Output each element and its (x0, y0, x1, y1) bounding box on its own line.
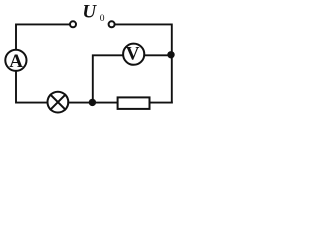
svg-text:A: A (9, 51, 23, 72)
junction node bottom (89, 99, 96, 106)
wire lamp to resistor (68, 102, 117, 104)
wire left-bottom: from ammeter bottom down and right to lamp (16, 71, 48, 103)
svg-text:V: V (126, 43, 140, 64)
resistor R1 (118, 97, 150, 109)
ammeter A1 (5, 50, 26, 71)
voltmeter V1 (123, 44, 144, 65)
svg-text:U: U (82, 1, 97, 22)
junction node right (167, 51, 174, 58)
svg-text:0: 0 (100, 14, 105, 24)
wire top-right: from right terminal right and down the right rail (116, 24, 172, 102)
terminal left (open circle) (70, 21, 76, 27)
lamp L1 (circle with X) (48, 92, 69, 113)
terminal right (open circle) (109, 21, 115, 27)
wire top-left: from ammeter top up and right to left terminal (16, 24, 69, 49)
wire voltmeter to right rail (144, 54, 172, 56)
wire resistor to right rail (151, 102, 172, 104)
wire voltmeter branch: up from junction then right to voltmeter (93, 55, 123, 102)
